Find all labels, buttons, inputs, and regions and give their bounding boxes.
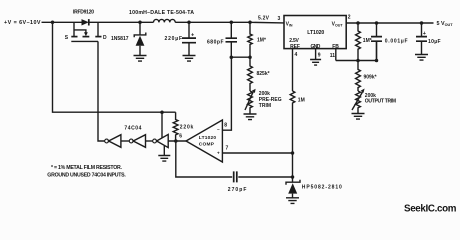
- svg-text:LT1020: LT1020: [199, 135, 217, 141]
- node catch diode junction: [138, 21, 142, 25]
- capacitor C3 plates: [371, 37, 382, 42]
- node 680pF bottom junction: [230, 55, 234, 59]
- node FB 909k junction: [356, 59, 360, 63]
- wire inverter C input to comp output node: [168, 140, 186, 142]
- diode D1 wire: [139, 22, 141, 55]
- wire FB node line: [336, 41, 377, 60]
- svg-text:SeekIC.com: SeekIC.com: [404, 204, 457, 215]
- node 10uF junction: [420, 21, 424, 25]
- node fb resistor junction: [356, 21, 360, 25]
- wire inverter A to B: [121, 140, 129, 142]
- svg-text:3: 3: [278, 16, 281, 22]
- svg-text:11: 11: [330, 53, 336, 59]
- svg-text:909k*: 909k*: [364, 75, 377, 81]
- svg-text:TRIM: TRIM: [259, 103, 271, 109]
- wire input down to 74C04 supply line: [53, 22, 176, 112]
- ground under inverter C: [158, 156, 170, 162]
- svg-text:+: +: [423, 31, 426, 37]
- wire REF line down: [290, 91, 295, 182]
- diode D2 wire to ground: [292, 194, 294, 198]
- node comp output junction: [174, 139, 178, 143]
- potentiometer 200k PRE-REG TRIM: [248, 91, 253, 114]
- svg-text:OUTPUT TRIM: OUTPUT TRIM: [365, 99, 396, 105]
- svg-text:74C04: 74C04: [124, 125, 141, 131]
- pin 4 REF stub: [292, 49, 294, 91]
- transistor Q1 source stub: [73, 22, 75, 36]
- resistor R1 1M* divider top: [248, 22, 252, 57]
- wire input rail: [42, 21, 75, 23]
- ground under output trim pot: [352, 114, 365, 120]
- svg-text:1M: 1M: [298, 97, 305, 103]
- svg-text:6: 6: [179, 134, 182, 140]
- transistor Q1 source bar: [71, 36, 77, 38]
- ground under C4: [415, 55, 428, 61]
- capacitor C1 wires: [188, 22, 190, 55]
- svg-text:−: −: [217, 127, 220, 132]
- wire rail to catch diode node: [98, 21, 154, 23]
- svg-text:7: 7: [226, 145, 229, 151]
- diode D2 schottky cathode bar: [286, 180, 300, 185]
- wire node line 680pF to divider: [231, 56, 250, 58]
- svg-text:8: 8: [224, 122, 227, 128]
- capacitor C5 wires: [238, 176, 292, 178]
- transistor Q1 body bar: [83, 36, 90, 38]
- wire comp node down to 270pF: [176, 141, 232, 177]
- diode body diode wire: [74, 21, 98, 23]
- transistor Q1 substrate wire: [74, 30, 86, 33]
- ground under D2: [286, 198, 299, 204]
- svg-text:10µF: 10µF: [428, 39, 441, 45]
- svg-text:+V = 6V–10V: +V = 6V–10V: [4, 20, 41, 26]
- capacitor C2 wires: [230, 22, 232, 57]
- node divider junction on rail: [248, 21, 252, 25]
- inverter A bubble: [105, 139, 109, 143]
- pin 7 wire: [222, 152, 292, 154]
- wire inverter B to C: [146, 140, 153, 142]
- diode body diode triangle: [82, 19, 89, 25]
- svg-text:2: 2: [348, 14, 351, 20]
- inverter C bubble: [153, 139, 157, 143]
- ground under pre-reg pot: [244, 114, 257, 120]
- wire gate down to inverter chain: [98, 41, 105, 141]
- svg-text:5.2V: 5.2V: [258, 15, 270, 21]
- resistor R3 1M* feedback: [356, 23, 361, 61]
- resistor R6 220k pull-up: [173, 112, 178, 141]
- node 680pF junction: [230, 21, 234, 25]
- svg-text:270pF: 270pF: [228, 187, 247, 193]
- inverter A triangle: [109, 135, 121, 148]
- op-amp U2 LT1020 COMP triangle: [186, 120, 222, 162]
- pin 11 FB stub: [335, 49, 337, 61]
- wire 74C04 Vcc tap: [161, 112, 163, 138]
- svg-text:REF: REF: [290, 44, 300, 50]
- ground under C1: [183, 56, 196, 62]
- svg-text:220k: 220k: [180, 125, 194, 131]
- diode body diode cathode bar: [88, 19, 90, 25]
- node 74C04 Vcc tap junction: [160, 110, 164, 114]
- inverter B bubble: [129, 139, 133, 143]
- potentiometer pre-reg arrow: [245, 92, 253, 110]
- inverter C triangle: [157, 134, 169, 147]
- inductor L1 coil: [154, 19, 176, 22]
- svg-text:D: D: [103, 35, 107, 41]
- node 0.001uF junction: [375, 21, 379, 25]
- node 220uF junction: [187, 21, 191, 25]
- pin 9 GND stub: [315, 49, 317, 60]
- capacitor C4 plates: [416, 37, 427, 42]
- node FB cap corner junction: [375, 59, 379, 63]
- transistor Q1 drain stub: [97, 22, 99, 36]
- diode D1 triangle: [136, 36, 145, 46]
- capacitor C5 270pF plates: [234, 171, 237, 182]
- wire inverter C ground tap: [163, 146, 165, 156]
- ground under D1: [134, 56, 147, 62]
- wire rail after inductor: [175, 21, 284, 24]
- capacitor C3 0.001uF: [376, 23, 378, 61]
- node divider mid junction: [248, 55, 252, 59]
- svg-text:9: 9: [318, 53, 321, 59]
- wire output rail: [346, 22, 434, 24]
- svg-text:HP5082-2810: HP5082-2810: [302, 185, 342, 191]
- diode D1 schottky cathode bar: [134, 33, 146, 38]
- svg-text:825k*: 825k*: [257, 71, 270, 77]
- svg-text:100mH–DALE TE-504-TA: 100mH–DALE TE-504-TA: [129, 10, 194, 16]
- capacitor C2 plates: [226, 38, 238, 42]
- resistor R4 909k*: [356, 61, 361, 92]
- svg-text:+: +: [217, 151, 220, 156]
- capacitor C1 plates: [182, 38, 196, 43]
- op-amp U1 LT1020 box: [284, 16, 346, 49]
- svg-text:IRFD9120: IRFD9120: [73, 10, 94, 16]
- resistor R2 825k*: [248, 57, 253, 91]
- transistor Q1 substrate arrow: [84, 32, 88, 36]
- wire comp minus input up line: [222, 57, 231, 130]
- svg-text:1N5817: 1N5817: [111, 36, 129, 42]
- svg-text:COMP: COMP: [199, 141, 215, 147]
- diode D2 triangle: [288, 183, 297, 193]
- transistor Q1 gate bar: [71, 40, 98, 42]
- capacitor C4 10uF: [421, 23, 423, 55]
- node 270pF junction: [291, 175, 295, 179]
- node pin7 junction: [291, 151, 295, 155]
- svg-text:680pF: 680pF: [207, 39, 224, 45]
- svg-text:220µF: 220µF: [165, 36, 183, 42]
- svg-text:LT1020: LT1020: [307, 30, 324, 36]
- svg-text:GROUND UNUSED 74C04 INPUTS.: GROUND UNUSED 74C04 INPUTS.: [47, 172, 126, 178]
- svg-text:1M*: 1M*: [363, 38, 372, 44]
- potentiometer 200k OUTPUT TRIM: [356, 91, 361, 114]
- svg-text:200k: 200k: [259, 91, 270, 97]
- svg-text:4: 4: [295, 52, 298, 58]
- potentiometer output trim arrow: [352, 92, 363, 110]
- svg-text:* = 1% METAL FILM RESISTOR.: * = 1% METAL FILM RESISTOR.: [51, 165, 123, 171]
- node input junction: [51, 21, 55, 25]
- svg-text:1M*: 1M*: [257, 38, 266, 44]
- inverter B triangle: [133, 135, 145, 148]
- svg-text:0.001µF: 0.001µF: [385, 38, 408, 44]
- transistor Q1 drain bar: [95, 36, 101, 38]
- ground under pin 9: [310, 60, 321, 66]
